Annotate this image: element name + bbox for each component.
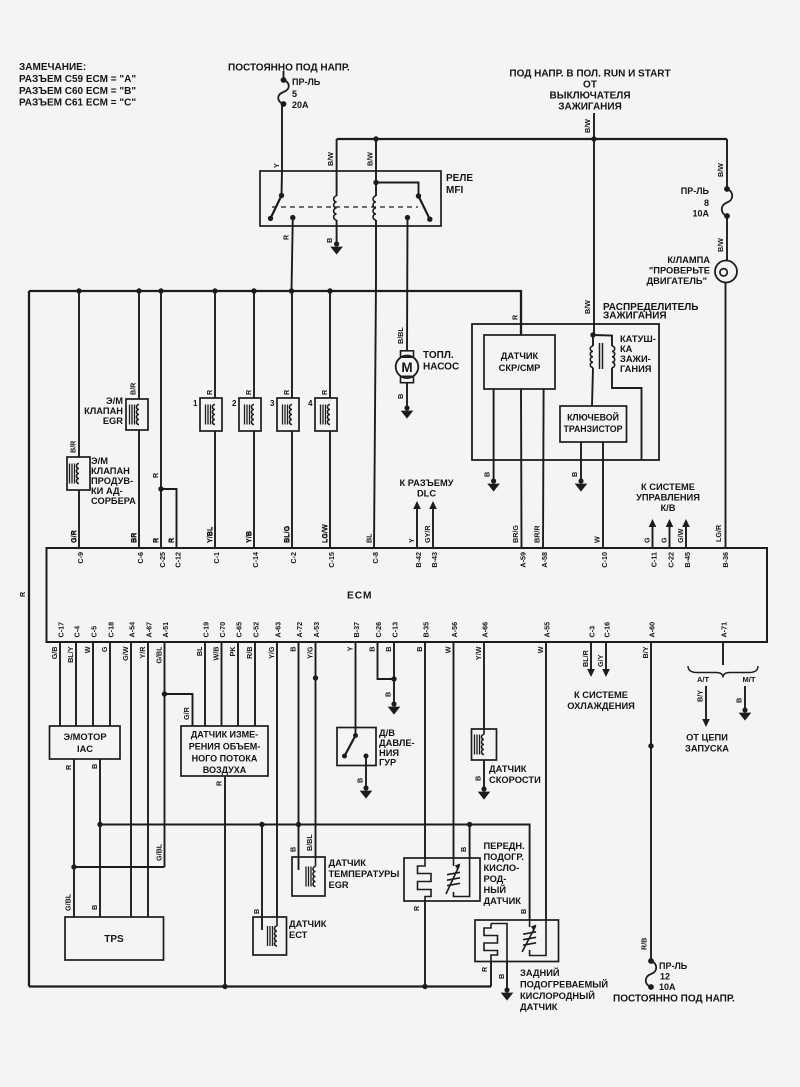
wire LG/R lamp to ECM B-36 [725,283,727,550]
svg-text:Y/BL: Y/BL [205,526,214,543]
svg-text:B: B [384,647,393,652]
wire G/BL ECM A-51 down [164,641,166,867]
wire B CKP sensor to ground [493,389,495,479]
junction mid bus ECT [259,822,264,827]
junction A-60 splice [648,743,653,748]
svg-text:B: B [368,647,377,652]
wire R left run [28,291,30,987]
svg-text:B/Y: B/Y [641,646,650,658]
svg-text:ДВИГАТЕЛЬ": ДВИГАТЕЛЬ" [647,276,707,286]
junction mid bus IAC [97,822,102,827]
svg-text:ЕСТ: ЕСТ [289,930,308,940]
wire ignition feed horizontal [337,138,727,140]
svg-text:Y/W: Y/W [474,646,483,660]
fuse F12 ПР-ЛЬ 12 10A [648,958,654,964]
svg-text:ГАНИЯ: ГАНИЯ [620,364,652,374]
brace A/T M/T split [688,666,758,678]
solenoid purge valve [67,457,90,490]
svg-text:B: B [483,472,492,477]
relay coil L1 [334,196,337,220]
svg-text:СОРБЕРА: СОРБЕРА [91,496,136,506]
svg-text:ПОДОГР.: ПОДОГР. [484,852,524,862]
sensor rear O2 box [475,920,559,962]
svg-text:20A: 20A [292,100,309,110]
svg-text:C-26: C-26 [374,622,383,638]
svg-text:R/B: R/B [245,647,254,659]
svg-text:ПЕРЕДН.: ПЕРЕДН. [484,841,525,851]
svg-text:B/W: B/W [326,152,335,166]
junction bottom bus MAF [222,984,227,989]
svg-text:B/Y: B/Y [696,690,705,702]
wire R bus to CKP sensor [520,334,522,336]
junction bottom bus O2 [422,984,427,989]
junction mid bus front O2 [467,822,472,827]
svg-text:КИСЛО-: КИСЛО- [484,863,520,873]
svg-text:B: B [252,909,261,914]
svg-text:РОД-: РОД- [484,874,507,884]
wire Y/B injector 2 to ECM [253,431,255,549]
wire B IAC to ground bus [99,759,101,825]
svg-text:Y: Y [272,163,281,168]
svg-text:B/W: B/W [716,163,725,177]
svg-text:W: W [593,536,602,543]
junction A-51 split [162,691,167,696]
wire B ECM C-26 [378,641,395,679]
front O2 element [418,858,432,901]
svg-text:R: R [480,966,489,972]
sensor CKP/CMP box [484,335,555,389]
wire G ECM C-11 arrow [652,521,654,549]
svg-text:C-9: C-9 [76,552,85,564]
svg-text:W: W [536,646,545,653]
wire Y/W ECM A-66 to speed sensor [483,641,485,729]
ground transistor [578,478,583,483]
wire B ground bus to TPS [99,825,101,918]
rear O2 heater [529,920,531,927]
wire G/BL jog to TPS [74,866,165,868]
svg-text:НЫЙ: НЫЙ [484,884,507,895]
junction ignition coil feed [590,332,595,337]
sensor front O2 box [404,858,480,901]
svg-text:ДАТЧИК: ДАТЧИК [484,896,522,906]
ignition coil secondary [612,346,615,368]
wire B bus to EGR temp sensor [298,825,300,871]
ignition coil primary [590,346,593,368]
svg-text:C-19: C-19 [202,622,211,638]
svg-text:B: B [497,974,506,979]
rear O2 element [484,924,498,962]
svg-text:Э/М: Э/М [106,396,123,406]
svg-text:К СИСТЕМЕ: К СИСТЕМЕ [574,690,628,700]
front O2 heater [453,858,455,866]
svg-text:A-54: A-54 [128,622,137,638]
svg-text:УПРАВЛЕНИЯ: УПРАВЛЕНИЯ [636,493,700,503]
wire BL/R ECM C-3 arrow [590,641,592,669]
svg-text:ЗАЖИГАНИЯ: ЗАЖИГАНИЯ [603,311,667,322]
relay mechanical link [272,206,418,208]
ground CKP sensor [491,478,496,483]
svg-text:G/R: G/R [182,706,191,720]
motor IAC box [50,726,121,759]
wire Y fuse F5 to relay [281,104,283,171]
svg-text:G: G [643,537,652,543]
svg-text:СКР/СМР: СКР/СМР [499,363,541,373]
wire G/B ECM C-17 to IAC [59,641,61,726]
svg-text:PK: PK [228,646,237,657]
wire Y/R ECM A-67 to TPS [147,641,149,917]
ignition coil core [599,343,601,369]
wire B/Y A/T branch [705,686,707,719]
svg-text:C-2: C-2 [289,552,298,564]
svg-text:R: R [244,389,253,395]
junction bus x215 [212,288,217,293]
svg-text:ДАТЧИК: ДАТЧИК [329,858,367,868]
svg-text:10A: 10A [692,209,709,219]
wire B/BL relay SW2 to fuel pump [406,218,409,351]
svg-text:G/W: G/W [676,528,685,543]
wire mid ground bus [100,825,530,921]
svg-text:B-45: B-45 [683,552,692,568]
wire B/W ignition switch drop [593,113,595,139]
ground M/T branch [742,707,747,712]
svg-text:B: B [289,647,298,652]
junction R branch [158,486,163,491]
svg-text:ЗАЖИГАНИЯ: ЗАЖИГАНИЯ [558,102,622,113]
wire Y/G ECM A-63 to ECT [276,641,278,917]
junction ignition feed [591,136,596,141]
wire B M/T branch [744,686,746,708]
svg-text:ПР-ЛЬ: ПР-ЛЬ [292,77,321,87]
wire bus to injector 4 [329,291,331,398]
ground rear O2 [504,987,509,992]
junction A-53 splice [313,675,318,680]
svg-text:R: R [151,537,160,543]
wire stub above fuse F5 [283,71,285,80]
svg-text:C-6: C-6 [136,552,145,564]
svg-text:B/BL: B/BL [396,327,405,344]
wire G/Y ECM C-16 arrow [605,641,607,669]
svg-text:ДАТЧИК: ДАТЧИК [501,351,539,361]
svg-text:MFI: MFI [446,185,463,196]
motor fuel pump [401,351,414,357]
svg-text:BL: BL [364,533,373,543]
svg-text:A-58: A-58 [540,552,549,568]
wire GY/R ECM B-43 to DLC [432,503,434,549]
wire G/R purge valve to ECM C-9 [78,490,80,549]
svg-text:G: G [100,646,109,652]
sensor MAF box [181,726,268,776]
wire B/W to fuse F8 [726,139,728,189]
relay switch SW1 [279,193,284,198]
svg-text:ПР-ЛЬ: ПР-ЛЬ [681,186,710,196]
wire B ground bus to ECT [261,825,263,931]
svg-text:A-72: A-72 [295,622,304,638]
svg-text:M: M [401,360,412,375]
svg-text:СКОРОСТИ: СКОРОСТИ [489,775,541,785]
wire R front O2 to bottom bus [424,901,426,987]
svg-text:R: R [151,472,160,478]
svg-text:"ПРОВЕРЬТЕ: "ПРОВЕРЬТЕ [649,266,710,276]
svg-text:C-3: C-3 [588,626,597,638]
svg-text:B: B [384,692,393,697]
svg-text:BR: BR [129,532,138,543]
wire bus to injector 3 [291,291,293,398]
svg-text:РЕЛЕ: РЕЛЕ [446,173,473,184]
svg-text:B: B [90,905,99,910]
svg-text:B: B [325,238,334,243]
svg-text:C-70: C-70 [218,622,227,638]
svg-text:R: R [511,314,520,320]
svg-text:C-10: C-10 [600,552,609,568]
svg-text:B: B [474,776,483,781]
relay coil L2 [373,196,376,220]
wire G/BL to TPS [73,867,75,917]
wire R bus to ECM C-25 [160,291,162,549]
svg-text:B-35: B-35 [422,622,431,638]
wire Y/BL injector 1 to ECM [214,431,216,549]
svg-text:R: R [282,234,291,240]
svg-text:C-11: C-11 [649,552,658,567]
svg-text:G/W: G/W [121,646,130,661]
svg-text:Y: Y [407,538,416,543]
wire B PS switch to ground [365,756,367,786]
wire B rear O2 to ground [506,962,508,989]
relay MFI box [260,171,441,226]
transistor power box [560,406,627,442]
svg-text:8: 8 [704,198,709,208]
svg-text:C-5: C-5 [90,626,99,638]
wire BL relay coil L2 to ECM C-8 [374,220,376,549]
svg-text:B/R: B/R [69,440,78,453]
svg-text:B/R: B/R [129,382,138,395]
svg-text:К/В: К/В [661,503,676,513]
svg-text:К/ЛАМПА: К/ЛАМПА [667,255,710,265]
junction C-26 C-13 [391,676,396,681]
svg-text:ВОЗДУХА: ВОЗДУХА [203,765,247,775]
wire Y ECM B-42 to DLC [416,503,418,549]
svg-text:К СИСТЕМЕ: К СИСТЕМЕ [641,482,695,492]
svg-text:10A: 10A [659,982,676,992]
junction bus x330 [327,288,332,293]
wire Y ECM B-37 to PS switch [355,641,357,736]
svg-text:A-63: A-63 [274,622,283,638]
svg-text:НИЯ: НИЯ [379,748,399,758]
svg-text:3: 3 [270,399,275,408]
svg-text:A/T: A/T [697,675,710,684]
svg-text:R/B: R/B [640,938,649,950]
wire G ECM C-18 to IAC [109,641,111,726]
svg-text:ЗАЖИ-: ЗАЖИ- [620,354,651,364]
svg-text:C-4: C-4 [73,626,82,638]
svg-text:ДАТЧИК: ДАТЧИК [489,764,527,774]
svg-text:B/W: B/W [366,152,375,166]
svg-text:Y/G: Y/G [306,646,315,659]
junction bus x79 [76,288,81,293]
svg-text:M/T: M/T [743,675,756,684]
svg-text:B/W: B/W [716,238,725,252]
wire coil2 to switch SW2 [376,183,419,197]
svg-text:Э/М: Э/М [91,456,108,466]
wire R rear O2 to bottom bus [490,962,492,987]
svg-text:РАЗЪЕМ C59 ЕСМ = "А": РАЗЪЕМ C59 ЕСМ = "А" [19,74,136,85]
wire B ECM C-13 [393,641,395,702]
svg-text:BL: BL [195,646,204,656]
injector 3 [277,398,299,431]
svg-text:G/R: G/R [69,529,78,543]
wire bus to injector 1 [214,291,216,398]
wire B ECM A-72 to ground bus [298,641,300,825]
svg-text:G: G [660,537,669,543]
wire bus to injector 2 [253,291,255,398]
svg-text:Y: Y [346,646,355,651]
svg-text:ПОСТОЯННО ПОД НАПР.: ПОСТОЯННО ПОД НАПР. [228,63,350,74]
svg-text:C-1: C-1 [212,552,221,564]
svg-text:ДАТЧИК: ДАТЧИК [520,1002,558,1012]
svg-text:B-42: B-42 [414,552,423,568]
sensor speed box [472,729,497,760]
svg-text:C-16: C-16 [603,622,612,638]
wire B/R bus to purge valve [78,291,80,457]
wire BR EGR valve to ECM C-6 [138,430,140,549]
svg-text:C-13: C-13 [391,622,400,638]
svg-text:C-8: C-8 [371,552,380,564]
injector 2 [239,398,261,431]
svg-text:НАСОС: НАСОС [423,362,459,373]
wire B speed sensor to ground [483,760,485,787]
wire B transistor to ground [580,442,582,479]
svg-text:C-25: C-25 [158,552,167,568]
svg-text:ПОСТОЯННО ПОД НАПР.: ПОСТОЯННО ПОД НАПР. [613,994,735,1005]
ground PS switch [363,785,368,790]
svg-text:КИСЛОРОДНЫЙ: КИСЛОРОДНЫЙ [520,990,595,1001]
sensor ECT box [253,917,287,955]
svg-text:C-52: C-52 [252,622,261,638]
svg-text:КА: КА [620,344,633,354]
svg-text:ДАВЛЕ-: ДАВЛЕ- [379,738,415,748]
wire W ECM A-55 to rear O2 [545,641,547,920]
distributor box [472,324,659,460]
svg-text:B/W: B/W [583,300,592,314]
wire R relay SW1 to main bus [292,218,293,291]
svg-text:EGR: EGR [103,416,123,426]
svg-text:ОТ ЦЕПИ: ОТ ЦЕПИ [686,733,728,743]
ground speed sensor [481,786,486,791]
svg-text:КАТУШ-: КАТУШ- [620,334,656,344]
junction coil2 feed [373,136,378,141]
wire BR/R CKP to ECM A-58 [542,389,545,549]
ground relay coil L1 [334,241,339,246]
wire B/R bus to EGR valve [138,291,140,399]
svg-text:B: B [519,909,528,914]
svg-text:C-14: C-14 [251,552,260,568]
svg-text:КЛЮЧЕВОЙ: КЛЮЧЕВОЙ [567,412,619,423]
wire R IAC down [73,759,75,867]
wire B/W to distributor [593,139,595,335]
svg-text:C-65: C-65 [235,622,244,638]
svg-text:B-43: B-43 [430,552,439,568]
svg-text:C-12: C-12 [173,552,182,568]
svg-text:IAC: IAC [77,744,93,754]
svg-text:КЛАПАН: КЛАПАН [84,406,123,416]
svg-text:R: R [205,389,214,395]
svg-text:2: 2 [232,399,237,408]
junction bus x254 [251,288,256,293]
wire PK ECM C-65 to MAF [237,641,239,726]
svg-text:DLC: DLC [417,489,436,499]
svg-text:ЗАДНИЙ: ЗАДНИЙ [520,967,560,978]
svg-text:A-55: A-55 [543,622,552,638]
wire W ECM A-56 to front O2 [453,641,455,858]
wire R/B ECM C-52 to MAF [254,641,256,726]
svg-text:BL/R: BL/R [581,649,590,667]
svg-text:C-18: C-18 [107,622,116,638]
wire BR/G CKP to ECM A-59 [520,389,523,549]
wire B/Y ECM A-60 down [650,641,652,961]
junction bus x139 [136,288,141,293]
svg-text:BR/G: BR/G [511,525,520,543]
ECM box [47,548,768,642]
wire BL ECM C-19 to MAF [204,641,206,726]
wire bottom ground bus [29,985,491,987]
svg-text:К РАЗЪЕМУ: К РАЗЪЕМУ [400,478,454,488]
svg-text:R: R [282,389,291,395]
sensor TPS box [65,917,164,960]
svg-text:R: R [320,389,329,395]
svg-text:BR/R: BR/R [533,525,542,543]
wire W ECM C-5 to IAC [92,641,94,726]
svg-text:ДАТЧИК ИЗМЕ-: ДАТЧИК ИЗМЕ- [191,730,258,740]
svg-text:Э/МОТОР: Э/МОТОР [63,732,106,742]
svg-text:НОГО ПОТОКА: НОГО ПОТОКА [192,754,258,764]
svg-text:G/B: G/B [50,647,59,660]
svg-text:B-36: B-36 [721,552,730,568]
svg-text:R: R [215,780,224,786]
svg-text:12: 12 [660,972,670,982]
svg-text:R: R [18,591,27,597]
svg-text:КЛАПАН: КЛАПАН [91,466,130,476]
svg-text:Y/B: Y/B [244,531,253,543]
svg-text:G/BL: G/BL [155,843,164,861]
injector 4 [315,398,337,431]
wire ECM A-71 down [722,641,724,665]
svg-text:A-56: A-56 [450,622,459,638]
fuse F8 ПР-ЛЬ 8 10A [724,186,730,192]
svg-text:W: W [83,646,92,653]
junction mid bus A-72 [296,822,301,827]
svg-text:ГУР: ГУР [379,758,396,768]
svg-text:A-59: A-59 [518,552,527,568]
svg-text:4: 4 [308,399,313,408]
svg-text:LG/R: LG/R [714,524,723,542]
wire BL/G injector 3 to ECM [291,431,293,549]
svg-text:R: R [412,905,421,911]
svg-text:B: B [459,847,468,852]
svg-text:B: B [356,778,365,783]
solenoid EGR valve [126,399,148,430]
svg-text:G/BL: G/BL [64,893,73,911]
svg-text:EGR: EGR [329,880,349,890]
svg-text:B: B [396,394,405,399]
svg-text:ПОД НАПР. В ПОЛ. RUN И START: ПОД НАПР. В ПОЛ. RUN И START [509,69,670,80]
svg-text:ТРАНЗИСТОР: ТРАНЗИСТОР [563,424,622,434]
junction TPS feed [71,864,76,869]
svg-text:КИ АД-: КИ АД- [91,486,123,496]
injector 1 [200,398,222,431]
svg-text:B/W: B/W [583,119,592,133]
svg-text:BL/Y: BL/Y [66,646,75,663]
svg-text:W/B: W/B [212,647,221,661]
junction bus x161 [158,288,163,293]
